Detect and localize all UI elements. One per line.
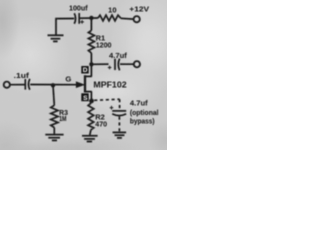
- svg-text:MPF102: MPF102: [93, 81, 127, 90]
- svg-text:S: S: [83, 95, 88, 102]
- svg-text:10: 10: [108, 5, 116, 14]
- svg-text:100uf: 100uf: [69, 3, 88, 12]
- svg-text:.1uf: .1uf: [14, 71, 30, 80]
- svg-text:4.7uf: 4.7uf: [109, 51, 127, 60]
- svg-text:+12V: +12V: [129, 5, 149, 14]
- svg-text:1200: 1200: [96, 40, 112, 49]
- svg-text:bypass): bypass): [130, 116, 155, 125]
- svg-text:D: D: [83, 67, 88, 74]
- svg-text:470: 470: [95, 120, 107, 129]
- svg-text:G: G: [65, 75, 71, 84]
- svg-text:1M: 1M: [59, 114, 66, 123]
- svg-text:4.7uf: 4.7uf: [130, 99, 148, 108]
